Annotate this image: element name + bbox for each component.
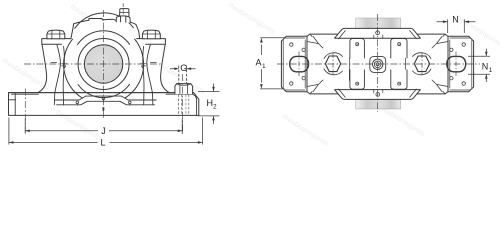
base top front edge right bbox=[166, 93, 191, 95]
svg-text:theabearingunits: theabearingunits bbox=[54, 107, 104, 143]
base left end step bbox=[9, 99, 16, 101]
tab screw circles bbox=[356, 43, 359, 46]
split line left bbox=[62, 64, 67, 68]
right bolt centerline bbox=[182, 74, 184, 134]
hex fillet arcs left bbox=[324, 53, 343, 75]
left body outer profile bbox=[38, 44, 47, 92]
waist casting lines right bbox=[432, 34, 448, 48]
cap top centre notch bbox=[89, 19, 103, 21]
grease nipple bbox=[120, 9, 129, 16]
housing body outline bbox=[307, 34, 448, 94]
cap dowel tab left bottom bbox=[350, 70, 365, 89]
left cap bolt head bbox=[47, 30, 65, 39]
base plate bbox=[9, 93, 199, 116]
cap dowel tab right top bbox=[391, 39, 407, 58]
cap dome bottom bbox=[335, 90, 421, 100]
left end plate bbox=[281, 36, 307, 91]
central vertical edges bbox=[349, 58, 405, 80]
right body outer profile bbox=[161, 44, 170, 92]
foot recess upper profile bbox=[55, 96, 157, 100]
svg-text:L: L bbox=[101, 138, 106, 148]
cap dome top bbox=[335, 28, 421, 38]
body bottom edge bbox=[307, 92, 448, 94]
svg-text:theabearingunits: theabearingunits bbox=[1, 56, 51, 92]
centre boss flank lines bottom bbox=[374, 89, 383, 93]
top view centerlines bbox=[277, 14, 480, 112]
shaft bottom segment bbox=[356, 99, 401, 109]
cap bolt hexagon right bbox=[414, 56, 429, 72]
seat circle bottom arc bbox=[78, 84, 130, 97]
right hex vertical centerline bbox=[421, 53, 423, 75]
split line right bbox=[140, 64, 145, 68]
dimension N bbox=[437, 15, 476, 33]
cap dome bottom inner slope lines bbox=[339, 89, 417, 97]
bottom centre small circle bbox=[376, 93, 380, 97]
left slot obround bbox=[290, 56, 309, 71]
seat circle top arc bbox=[78, 31, 130, 45]
shaft top segment bbox=[356, 18, 401, 28]
bore circle bbox=[78, 39, 129, 90]
shaft bbox=[84, 45, 122, 83]
front view centerlines bbox=[24, 10, 183, 134]
left bolt-hole centerline bbox=[24, 89, 26, 135]
split ledge left bbox=[51, 62, 57, 64]
central grease boss bbox=[370, 56, 386, 72]
right body rib line bbox=[147, 44, 153, 105]
dimension H2 bbox=[198, 84, 220, 125]
right end plate bbox=[448, 36, 474, 91]
base right end inner edge bbox=[191, 94, 196, 115]
horizontal centerline bbox=[24, 63, 161, 65]
left body rib line bbox=[54, 44, 60, 105]
dimension G bbox=[170, 63, 196, 73]
svg-text:1: 1 bbox=[489, 67, 493, 74]
svg-text:1: 1 bbox=[262, 63, 266, 70]
bolt shank hidden bbox=[179, 66, 187, 84]
foot recess hole left bbox=[76, 101, 79, 104]
hex fillet arcs right bbox=[413, 53, 432, 75]
plate screw holes left bbox=[290, 43, 293, 46]
left cap-bolt boss bbox=[42, 39, 71, 45]
right slot obround bbox=[447, 56, 466, 71]
centre boss flank lines top bbox=[374, 35, 383, 39]
bolt hex head bbox=[175, 84, 193, 95]
dimension N1 bbox=[468, 49, 493, 83]
waist casting lines left bbox=[307, 34, 323, 48]
svg-text:theabearingunits: theabearingunits bbox=[227, 0, 277, 36]
horizontal centerline bbox=[277, 63, 480, 65]
left hex vertical centerline bbox=[332, 53, 334, 75]
right slot vertical centerline bbox=[455, 52, 457, 77]
svg-text:G: G bbox=[180, 63, 187, 73]
vertical centerline bbox=[103, 10, 105, 119]
left slot vertical centerline bbox=[298, 52, 300, 77]
svg-text:N: N bbox=[482, 62, 489, 72]
svg-text:2: 2 bbox=[213, 104, 217, 111]
anchor bolt detail (right) bbox=[175, 66, 193, 116]
left body inner rib bbox=[63, 47, 64, 105]
svg-text:A: A bbox=[256, 58, 262, 68]
plate screw holes right bbox=[462, 43, 465, 46]
dimension J bbox=[25, 119, 182, 137]
svg-text:theabearingunits: theabearingunits bbox=[281, 112, 331, 148]
recess hole ticks bbox=[77, 100, 130, 105]
foot recess hole right bbox=[129, 101, 132, 104]
base top front edge left bbox=[12, 93, 39, 95]
dimension L bbox=[9, 118, 203, 148]
base top back edge bbox=[9, 92, 194, 94]
bolt hole hidden in base bbox=[178, 94, 188, 115]
left plate inner edge lines bbox=[283, 38, 305, 88]
base left end chamfer line bbox=[14, 93, 16, 115]
right plate inner edge lines bbox=[450, 38, 472, 88]
center dowel pin bbox=[103, 107, 105, 111]
foot recess lower profile bbox=[57, 101, 155, 105]
right cap bolt head bbox=[142, 30, 160, 39]
cap dowel tab left top bbox=[350, 39, 365, 58]
nipple centerline bbox=[122, 4, 124, 15]
vertical centerline bbox=[377, 14, 379, 112]
right body inner rib bbox=[143, 47, 144, 105]
cap bolt hexagon left bbox=[325, 56, 340, 72]
dimension A1 bbox=[256, 38, 286, 89]
cap bbox=[71, 19, 140, 39]
top centre small circle bbox=[376, 31, 380, 35]
svg-text:J: J bbox=[101, 126, 106, 136]
cap dome top inner slope lines bbox=[339, 31, 417, 39]
body top edge bbox=[307, 34, 448, 36]
svg-text:N: N bbox=[452, 15, 459, 25]
cap inner arc bbox=[75, 13, 133, 28]
right cap-bolt boss bbox=[137, 39, 166, 45]
cap dowel tab right bottom bbox=[391, 70, 407, 89]
foot recess hole center bbox=[102, 97, 105, 100]
split ledge right bbox=[151, 62, 157, 64]
boss circle r40 bbox=[64, 24, 144, 98]
